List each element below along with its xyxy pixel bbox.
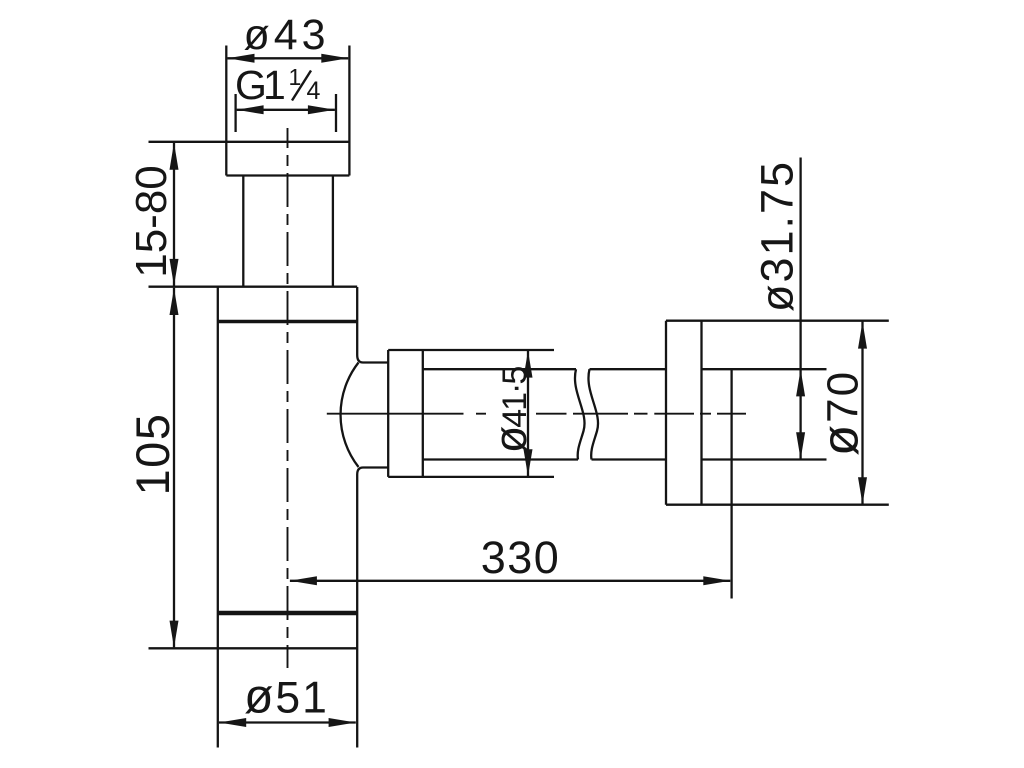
svg-text:15-80: 15-80 [127, 165, 176, 278]
svg-text:4: 4 [307, 77, 321, 105]
svg-text:ø41·5: ø41·5 [485, 367, 536, 454]
svg-text:ø43: ø43 [243, 11, 329, 59]
svg-text:1: 1 [289, 64, 302, 90]
svg-text:330: 330 [481, 532, 561, 583]
svg-text:ø51: ø51 [244, 671, 329, 724]
svg-text:1: 1 [263, 62, 286, 108]
svg-text:ø31.75: ø31.75 [752, 160, 803, 312]
svg-text:ø70: ø70 [812, 370, 869, 456]
svg-text:105: 105 [126, 413, 179, 496]
